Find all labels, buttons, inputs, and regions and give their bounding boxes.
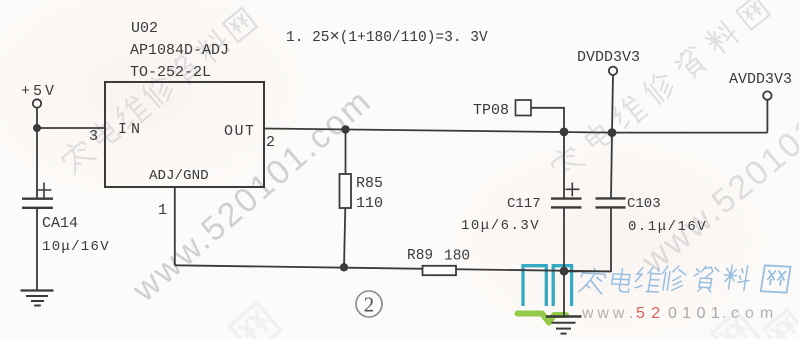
svg-text:.: . [722,305,726,322]
svg-text:R85: R85 [356,175,383,192]
junction node OUT rail / TP08 / C117 [560,127,569,136]
resistor R85 [340,174,352,208]
circled 2 page marker [356,291,382,317]
C117 polarity + mark [566,183,580,197]
CA14 polarity + mark [37,183,52,198]
schematic ink [21,67,772,334]
ground (left) [21,289,54,291]
svg-text:AP1084D-ADJ: AP1084D-ADJ [130,42,229,59]
svg-text:10μ/16V: 10μ/16V [42,239,110,255]
svg-text:IN: IN [118,121,144,138]
watermark row F: faint glyphs bottom-right corner [712,310,799,339]
svg-text:10μ/6.3V: 10μ/6.3V [461,218,540,234]
logo url www.520101.com [581,305,779,322]
svg-text:0101: 0101 [668,305,725,322]
junction node ground rail / C117 [560,267,569,276]
svg-text:3: 3 [89,128,98,145]
svg-text:U02: U02 [131,20,158,37]
svg-text:180: 180 [444,249,470,265]
C117 down wire [563,207,565,271]
logo script text 家电维修资料网 (blue) [579,265,791,294]
svg-text:0.1μ/16V: 0.1μ/16V [628,219,707,235]
C103 riser [611,133,612,198]
svg-text:+5V: +5V [21,83,57,100]
wire to IC IN pin [37,127,105,129]
svg-text:ADJ/GND: ADJ/GND [149,168,209,184]
watermark row C: faint wang bottom-center [230,303,281,339]
svg-text:1: 1 [158,202,167,219]
svg-text:com: com [731,305,779,322]
svg-text:AVDD3V3: AVDD3V3 [729,71,792,88]
OUT rail [264,129,767,133]
svg-text:52: 52 [636,305,666,322]
TP08 box [516,100,532,116]
svg-text:2: 2 [266,134,275,151]
logo book icon right panel [553,266,571,306]
svg-text:110: 110 [356,195,383,212]
junction node ADJ rail / R85 [340,263,348,271]
watermark row A: 家电维修资料网 diagonal top-left [58,8,257,175]
svg-text:C103: C103 [627,196,661,212]
TP08 wire [531,108,564,132]
AVDD3V3 riser [766,100,768,133]
wire CA14 to ground [36,208,38,290]
capacitor C103 [596,197,626,199]
capacitor CA14 [22,197,53,199]
logo green swoosh [518,314,567,323]
svg-text:1. 25×(1+180/110)=3. 3V: 1. 25×(1+180/110)=3. 3V [286,28,488,47]
junction node at +5V input [33,124,41,132]
R85 top wire [345,130,347,175]
watermark row D: 家电维修资料网 diagonal top-right [547,0,769,181]
svg-text:R89: R89 [407,248,433,264]
svg-text:C117: C117 [507,196,541,212]
svg-text:2: 2 [364,293,375,317]
svg-text:CA14: CA14 [42,215,78,232]
R85 bottom wire [344,208,345,267]
bottom rail [175,265,611,271]
junction node OUT rail / R85 [341,125,349,133]
C117 riser [563,132,565,198]
svg-text:.: . [629,305,633,322]
wire +5V down [36,108,38,128]
wire down to CA14 [36,128,38,198]
pin1 wire [174,187,176,265]
svg-text:DVDD3V3: DVDD3V3 [577,49,640,66]
svg-text:OUT: OUT [224,123,256,140]
svg-text:www: www [581,305,628,322]
+5V terminal [33,99,41,107]
voltage regulator U02 body [105,82,264,187]
capacitor C117 [551,197,582,199]
logo book icon left panel [523,266,546,306]
junction node OUT rail / DVDD3V3 / C103 [608,128,617,137]
C103 down wire to rail [564,207,611,271]
resistor R89 (white body on rail) [423,266,457,275]
DVDD3V3 riser [612,75,613,133]
ground (right) [546,315,582,317]
svg-text:TP08: TP08 [473,102,509,119]
svg-text:TO-252-2L: TO-252-2L [130,64,211,81]
ground (right) wire [563,271,565,316]
